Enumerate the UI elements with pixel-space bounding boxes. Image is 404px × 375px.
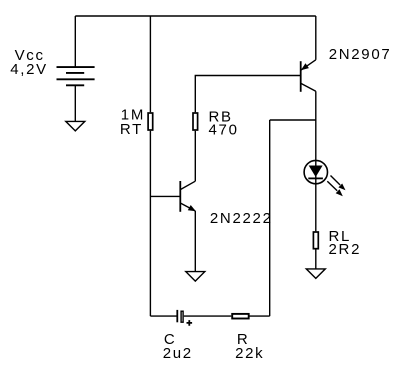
- wire RT bottom to bottom rail: [149, 131, 151, 316]
- wire feedback branch horizontal: [270, 119, 316, 121]
- svg-text:RT: RT: [120, 121, 143, 138]
- wire top rail: [75, 15, 315, 17]
- ground (Q1 emitter): [186, 272, 205, 282]
- label C: [164, 331, 177, 348]
- wire Q2 collector down to LED and RL: [315, 91, 317, 231]
- transistor Q2 2N2907: [301, 60, 316, 92]
- transistor Q1 2N2222: [180, 181, 196, 212]
- label 1M: [121, 107, 145, 124]
- LED light arrow 1: [331, 176, 346, 191]
- label 2R2: [329, 241, 362, 258]
- wire RL bottom: [315, 250, 317, 269]
- wire battery negative lead: [74, 85, 76, 121]
- LED light arrow 2: [327, 181, 343, 196]
- wire RT top (rail to RT): [149, 16, 151, 112]
- resistor R 22k: [232, 314, 249, 319]
- ground (RL): [306, 269, 325, 279]
- battery Vcc 4,2V: [57, 67, 95, 85]
- svg-text:2N2907: 2N2907: [329, 46, 392, 63]
- label 2N2222: [210, 210, 273, 227]
- capacitor C 2u2: [177, 310, 192, 326]
- svg-text:4,2V: 4,2V: [10, 61, 48, 78]
- label 22k: [235, 345, 264, 362]
- svg-text:2R2: 2R2: [329, 241, 362, 258]
- svg-text:470: 470: [209, 122, 239, 139]
- wire bottom rail left: [150, 315, 177, 317]
- label RL: [329, 228, 352, 245]
- label 470: [209, 122, 239, 139]
- label Vcc: [15, 47, 45, 64]
- wire Q1 collector to RB: [194, 131, 196, 181]
- label 2u2: [163, 345, 193, 362]
- ground (battery): [66, 121, 85, 130]
- label 4,2V: [10, 61, 48, 78]
- wire battery positive lead: [74, 16, 76, 67]
- label RB: [209, 109, 233, 126]
- wire Q1 base: [150, 195, 180, 197]
- svg-text:2u2: 2u2: [163, 345, 193, 362]
- svg-text:2N2222: 2N2222: [210, 210, 273, 227]
- wire Q1 emitter down: [194, 211, 196, 272]
- resistor RB 470: [193, 113, 198, 130]
- label R: [237, 331, 250, 348]
- resistor RT 1M: [148, 113, 153, 130]
- label RT: [120, 121, 143, 138]
- wire Q2 emitter to rail: [315, 16, 317, 60]
- label 2N2907: [329, 46, 392, 63]
- LED D1: [304, 160, 327, 184]
- wire feedback branch vertical: [269, 120, 271, 316]
- svg-text:22k: 22k: [235, 345, 264, 362]
- resistor RL 2R2: [313, 232, 318, 249]
- wire RB top to Q2 base: [195, 76, 300, 113]
- wire bottom rail right: [250, 315, 270, 317]
- wire bottom rail middle: [184, 315, 232, 317]
